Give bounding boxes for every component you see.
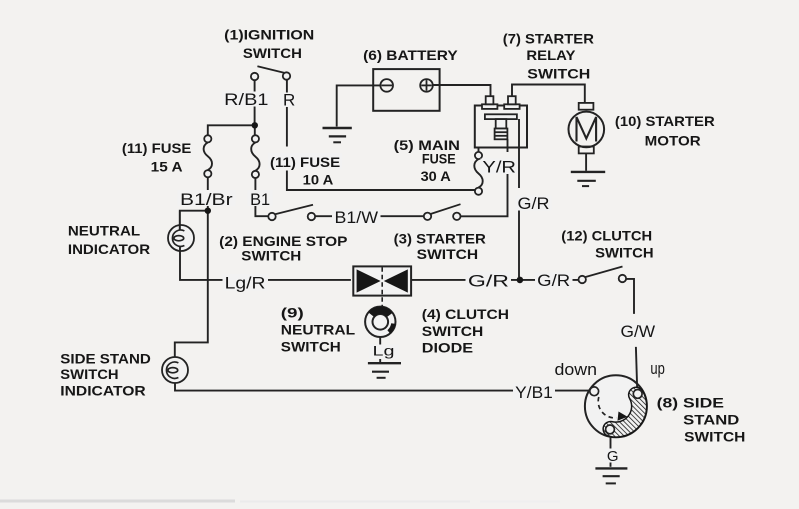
svg-text:Lg/R: Lg/R <box>225 274 266 293</box>
svg-text:MOTOR: MOTOR <box>645 132 701 148</box>
svg-text:(8) SIDE: (8) SIDE <box>657 395 724 411</box>
svg-text:B1/W: B1/W <box>335 208 379 227</box>
svg-text:(11) FUSE: (11) FUSE <box>270 154 340 170</box>
svg-text:SWITCH: SWITCH <box>243 45 302 61</box>
svg-text:B1/Br: B1/Br <box>180 190 233 209</box>
svg-text:(1)IGNITION: (1)IGNITION <box>224 26 314 42</box>
svg-text:Y/R: Y/R <box>482 157 516 176</box>
svg-text:SWITCH: SWITCH <box>417 246 479 262</box>
svg-text:up: up <box>650 359 665 378</box>
svg-text:(11) FUSE: (11) FUSE <box>122 140 191 156</box>
svg-text:B1: B1 <box>250 190 270 209</box>
svg-text:G/R: G/R <box>518 194 550 213</box>
svg-text:RELAY: RELAY <box>526 47 576 63</box>
svg-text:STAND: STAND <box>683 412 739 428</box>
svg-text:Y/B1: Y/B1 <box>515 383 553 402</box>
svg-text:(10) STARTER: (10) STARTER <box>615 113 715 129</box>
svg-text:SWITCH: SWITCH <box>241 248 301 264</box>
svg-text:SWITCH: SWITCH <box>527 65 590 81</box>
svg-text:DIODE: DIODE <box>422 339 473 355</box>
svg-text:(6) BATTERY: (6) BATTERY <box>363 47 458 63</box>
svg-text:15 A: 15 A <box>151 158 183 174</box>
svg-text:INDICATOR: INDICATOR <box>60 383 145 399</box>
svg-text:SWITCH: SWITCH <box>60 366 118 382</box>
svg-text:FUSE: FUSE <box>422 151 456 167</box>
svg-text:SWITCH: SWITCH <box>422 323 484 339</box>
svg-text:(9): (9) <box>281 305 304 321</box>
svg-text:G/W: G/W <box>621 322 656 341</box>
svg-text:(3) STARTER: (3) STARTER <box>394 230 486 246</box>
svg-text:NEUTRAL: NEUTRAL <box>281 321 356 337</box>
svg-text:down: down <box>555 360 598 379</box>
svg-text:30 A: 30 A <box>421 168 451 184</box>
svg-text:10 A: 10 A <box>303 172 334 188</box>
svg-text:INDICATOR: INDICATOR <box>68 241 150 257</box>
svg-text:(4) CLUTCH: (4) CLUTCH <box>422 306 509 322</box>
svg-text:(7) STARTER: (7) STARTER <box>503 30 594 46</box>
svg-text:SWITCH: SWITCH <box>684 428 745 444</box>
svg-text:SWITCH: SWITCH <box>281 338 341 354</box>
svg-text:G/R: G/R <box>468 271 509 290</box>
svg-text:SIDE STAND: SIDE STAND <box>60 351 151 367</box>
svg-text:G: G <box>607 448 619 465</box>
svg-text:SWITCH: SWITCH <box>595 244 654 260</box>
svg-text:G/R: G/R <box>537 271 570 290</box>
svg-text:R: R <box>283 91 295 110</box>
svg-text:NEUTRAL: NEUTRAL <box>68 223 141 239</box>
svg-text:R/B1: R/B1 <box>224 90 268 109</box>
svg-text:(12) CLUTCH: (12) CLUTCH <box>561 227 652 243</box>
svg-text:Lg: Lg <box>373 343 395 359</box>
